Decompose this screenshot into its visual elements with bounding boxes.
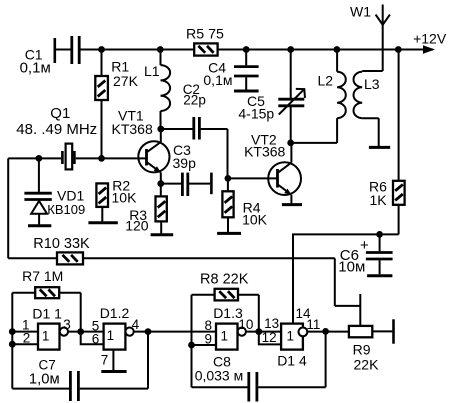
node pin9-C8: [188, 342, 195, 349]
resistor R6: [369, 50, 405, 235]
resistor R9 (trimmer): [349, 319, 394, 372]
capacitor C3: [161, 142, 212, 196]
wire jog to pin 12: [259, 332, 282, 345]
svg-text:13: 13: [264, 316, 279, 331]
svg-text:10K: 10K: [242, 211, 268, 227]
gate D1.1: [32, 306, 68, 350]
svg-text:11: 11: [306, 317, 320, 332]
svg-text:10м: 10м: [338, 259, 365, 276]
wire R6 bottom to pin14 riser: [292, 233, 399, 235]
node C5-L2-VT2: [287, 140, 294, 147]
svg-text:1: 1: [42, 329, 50, 344]
svg-text:R8 22K: R8 22K: [200, 272, 249, 288]
capacitor C8: [192, 331, 326, 401]
svg-text:W1: W1: [350, 4, 371, 20]
ground (R4): [217, 232, 241, 235]
resistor R1: [95, 50, 138, 159]
svg-text:4: 4: [132, 317, 140, 332]
svg-text:D1 1: D1 1: [32, 306, 62, 322]
node rail-C5: [287, 46, 294, 53]
svg-text:КВ109: КВ109: [47, 202, 85, 217]
svg-text:9: 9: [204, 331, 212, 346]
svg-text:1: 1: [220, 328, 228, 343]
wire pin 9: [192, 344, 217, 346]
node D1.4 out: [322, 328, 329, 335]
node VT1 emitter / C3 / R3: [157, 180, 164, 187]
wire top supply rail left segment: [80, 49, 195, 51]
svg-text:27K: 27K: [113, 73, 139, 89]
variable capacitor C5: [238, 50, 305, 143]
svg-text:KT368: KT368: [244, 144, 285, 160]
svg-text:1: 1: [107, 328, 115, 343]
wire D1.3 out to D1.4: [246, 331, 281, 333]
ground (L3): [369, 146, 390, 149]
svg-text:39p: 39p: [173, 155, 197, 171]
antenna W1: [350, 4, 390, 72]
svg-text:R9: R9: [353, 342, 371, 358]
svg-text:L3: L3: [364, 76, 380, 92]
svg-text:0,033 м: 0,033 м: [195, 367, 244, 383]
node rail-R6: [395, 46, 402, 53]
node R8-D1.3 out: [255, 328, 262, 335]
svg-text:22K: 22K: [354, 357, 380, 373]
svg-text:0,1м: 0,1м: [20, 59, 51, 76]
wire D1.4 out to R9: [307, 331, 349, 333]
capacitor C2: [161, 82, 228, 178]
svg-text:Q1: Q1: [50, 105, 70, 122]
node rail-C4: [243, 46, 250, 53]
transistor VT1: [102, 108, 170, 184]
inductor L2: [318, 50, 346, 143]
svg-text:L1: L1: [144, 63, 160, 79]
crystal Q1: [8, 105, 101, 169]
+12V arrow: [413, 31, 447, 54]
svg-text:48. .49 MHz: 48. .49 MHz: [16, 121, 97, 138]
svg-text:10: 10: [238, 317, 253, 332]
svg-text:1,0м: 1,0м: [29, 372, 60, 388]
wire D1.2 out to D1.3 pin 8: [134, 331, 216, 333]
wire L2 bottom to VT2 collector node: [291, 142, 337, 144]
gate D1.2: [100, 305, 134, 350]
resistor R4: [222, 178, 267, 232]
svg-text:KT368: KT368: [112, 121, 153, 137]
svg-text:R10 33K: R10 33K: [33, 236, 90, 252]
svg-text:3: 3: [63, 317, 71, 332]
svg-text:L2: L2: [318, 73, 334, 89]
resistor R3: [125, 184, 167, 234]
svg-text:22p: 22p: [183, 92, 206, 107]
node rail-R1: [98, 46, 105, 53]
svg-text:6: 6: [92, 331, 100, 346]
svg-text:1K: 1K: [370, 192, 388, 208]
node VT1 collector / C2: [157, 126, 164, 133]
inductor L1: [144, 50, 170, 130]
svg-text:2: 2: [23, 331, 31, 346]
resistor R10: [8, 158, 335, 264]
svg-text:120: 120: [125, 218, 149, 234]
inductor L3: [354, 71, 383, 147]
wire pin 7: [112, 350, 114, 371]
node C7 riser: [145, 328, 152, 335]
node C2-R4-VT2 base: [225, 175, 232, 182]
wire D1.1 out to D1.2: [68, 331, 104, 333]
node Q1-VD1: [36, 155, 43, 162]
ground (VT2 emitter): [282, 203, 302, 206]
svg-text:+12V: +12V: [413, 31, 447, 47]
ground (pin 7): [101, 370, 126, 373]
wire D1.1 input column: [11, 293, 13, 389]
wire pin 2: [12, 343, 38, 345]
capacitor C4: [203, 50, 258, 90]
svg-text:4-15p: 4-15p: [238, 105, 274, 121]
node C6 top: [376, 231, 383, 238]
svg-text:+: +: [360, 237, 369, 254]
node pin1: [9, 328, 16, 335]
svg-text:D1 4: D1 4: [277, 352, 307, 368]
node R7-D1.1 out: [77, 328, 84, 335]
capacitor C1: [20, 36, 80, 76]
svg-text:7: 7: [101, 352, 109, 367]
node Q1-R1-R2-VT1 base: [98, 155, 105, 162]
varicap VD1: [24, 158, 85, 225]
wire top supply rail right segment: [218, 49, 433, 51]
svg-text:R5 75: R5 75: [186, 26, 224, 42]
wire jog to pin 6: [81, 332, 104, 345]
capacitor C6 (electrolytic): [338, 234, 392, 275]
node pin2: [9, 341, 16, 348]
svg-text:10K: 10K: [112, 189, 138, 205]
resistor R8: [192, 272, 259, 388]
svg-text:12: 12: [262, 330, 277, 345]
svg-text:R7 1M: R7 1M: [22, 268, 63, 284]
svg-text:D1.2: D1.2: [100, 305, 130, 321]
transistor VT2: [228, 132, 301, 204]
svg-text:0,1м: 0,1м: [203, 72, 232, 88]
ground (VD1): [28, 224, 51, 227]
gate D1.4: [277, 324, 307, 369]
node rail-L1: [157, 46, 164, 53]
wire pin 1: [12, 331, 38, 333]
ground (C6): [367, 274, 392, 277]
resistor R5: [186, 26, 224, 55]
gate D1.3: [213, 305, 246, 350]
ground (R3): [151, 233, 174, 236]
wire R10 to R9 tap: [335, 258, 361, 326]
node rail-L2: [334, 46, 341, 53]
resistor R2: [96, 177, 137, 222]
capacitor C7: [12, 332, 148, 401]
svg-text:1: 1: [286, 329, 294, 344]
resistor R7: [12, 268, 80, 332]
svg-text:C7: C7: [39, 358, 56, 373]
ground (R2): [88, 221, 117, 224]
wire pin 14 riser: [292, 234, 294, 324]
ground (C4): [234, 90, 259, 93]
